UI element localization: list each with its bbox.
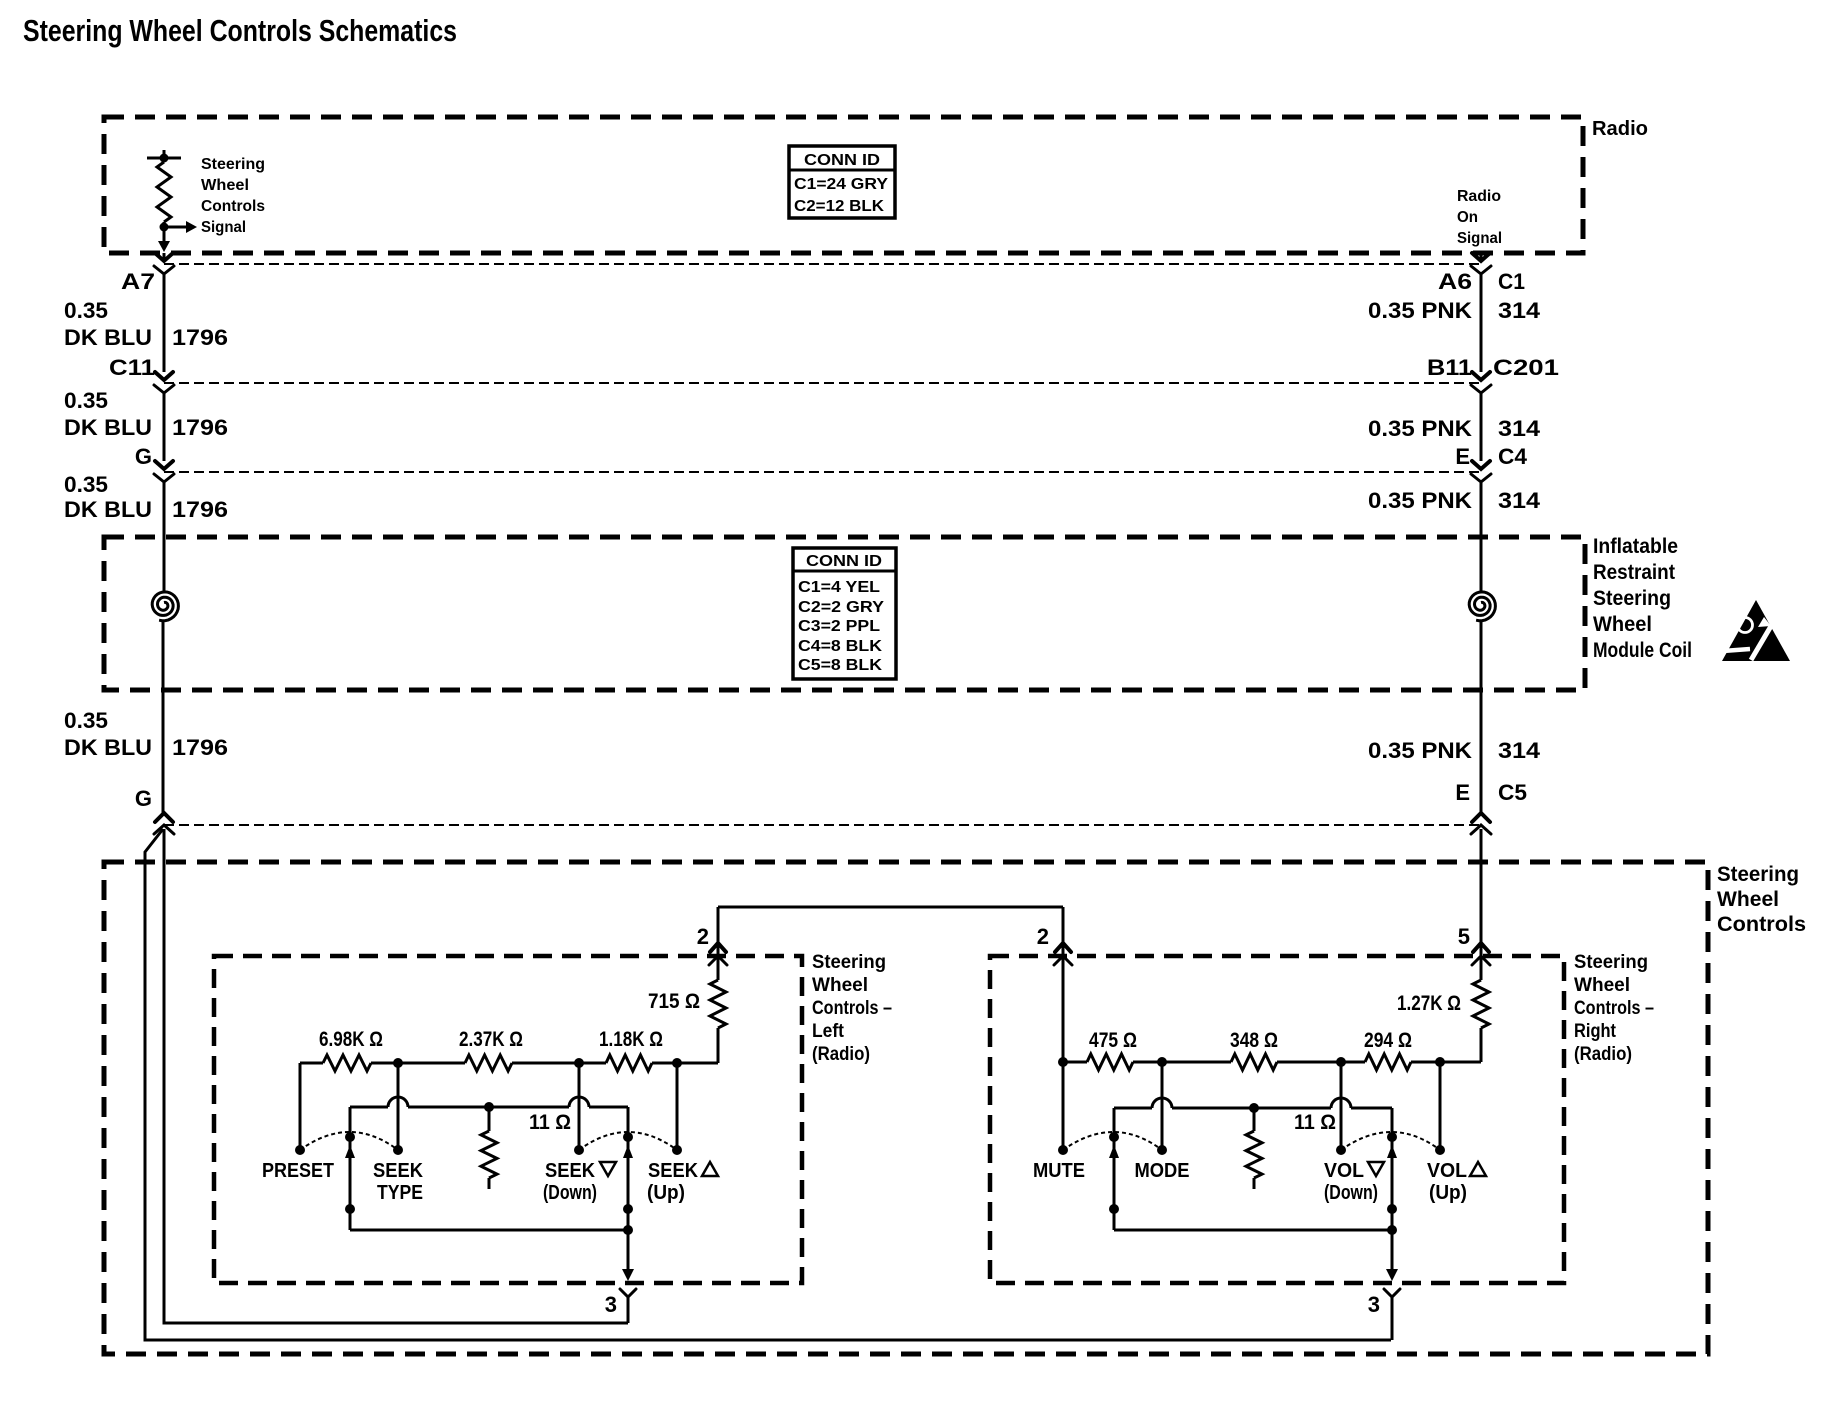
svg-text:SEEK: SEEK: [373, 1160, 424, 1182]
svg-text:C2=12 BLK: C2=12 BLK: [794, 198, 884, 215]
svg-text:314: 314: [1498, 298, 1541, 323]
svg-text:0.35 PNK: 0.35 PNK: [1368, 738, 1472, 763]
svg-text:1.27K Ω: 1.27K Ω: [1397, 992, 1461, 1015]
svg-text:C1=4 YEL: C1=4 YEL: [798, 579, 880, 596]
svg-text:Signal: Signal: [201, 219, 246, 236]
svg-text:0.35 PNK: 0.35 PNK: [1368, 298, 1472, 323]
svg-text:2: 2: [1037, 924, 1049, 949]
svg-text:0.35: 0.35: [64, 298, 108, 323]
svg-text:C4=8 BLK: C4=8 BLK: [798, 638, 882, 655]
svg-text:Steering: Steering: [812, 952, 886, 973]
svg-text:G: G: [135, 786, 152, 811]
svg-text:0.35: 0.35: [64, 388, 108, 413]
svg-text:Steering: Steering: [1574, 952, 1648, 973]
svg-text:Radio: Radio: [1592, 118, 1648, 140]
svg-text:Wheel: Wheel: [1593, 613, 1652, 636]
svg-text:C5: C5: [1498, 780, 1527, 805]
svg-text:DK BLU: DK BLU: [64, 735, 152, 760]
svg-text:C2=2 GRY: C2=2 GRY: [798, 599, 884, 616]
svg-text:6.98K Ω: 6.98K Ω: [319, 1028, 383, 1051]
svg-text:(Radio): (Radio): [1574, 1044, 1632, 1065]
svg-text:B11: B11: [1427, 355, 1472, 380]
svg-text:(Up): (Up): [1429, 1182, 1467, 1204]
svg-text:C201: C201: [1493, 355, 1559, 380]
svg-text:314: 314: [1498, 488, 1541, 513]
svg-text:On: On: [1457, 209, 1478, 226]
svg-text:CONN ID: CONN ID: [806, 553, 882, 570]
svg-text:Controls –: Controls –: [1574, 998, 1654, 1019]
svg-text:(Radio): (Radio): [812, 1044, 870, 1065]
svg-text:Controls: Controls: [1717, 913, 1806, 936]
svg-text:294 Ω: 294 Ω: [1364, 1029, 1412, 1052]
svg-text:Radio: Radio: [1457, 188, 1501, 205]
svg-text:(Down): (Down): [543, 1182, 597, 1204]
svg-text:Signal: Signal: [1457, 230, 1502, 247]
svg-text:348 Ω: 348 Ω: [1230, 1029, 1278, 1052]
svg-text:5: 5: [1458, 924, 1470, 949]
svg-text:(Down): (Down): [1324, 1182, 1378, 1204]
svg-text:VOL: VOL: [1427, 1160, 1467, 1182]
svg-text:DK BLU: DK BLU: [64, 497, 152, 522]
svg-text:C1: C1: [1498, 269, 1525, 294]
svg-text:314: 314: [1498, 738, 1541, 763]
svg-text:G: G: [135, 444, 152, 469]
svg-text:0.35 PNK: 0.35 PNK: [1368, 416, 1472, 441]
svg-text:E: E: [1455, 444, 1470, 469]
svg-text:314: 314: [1498, 416, 1541, 441]
svg-text:Controls –: Controls –: [812, 998, 892, 1019]
svg-text:Controls: Controls: [201, 198, 265, 215]
svg-text:Right: Right: [1574, 1021, 1617, 1042]
svg-text:2: 2: [697, 924, 709, 949]
svg-text:A6: A6: [1438, 269, 1472, 294]
svg-text:TYPE: TYPE: [377, 1182, 423, 1204]
svg-text:PRESET: PRESET: [262, 1160, 334, 1182]
svg-text:1796: 1796: [172, 415, 228, 440]
svg-text:(Up): (Up): [647, 1182, 685, 1204]
svg-text:3: 3: [605, 1292, 617, 1317]
svg-text:1.18K Ω: 1.18K Ω: [599, 1028, 663, 1051]
svg-text:0.35 PNK: 0.35 PNK: [1368, 488, 1472, 513]
svg-text:Steering: Steering: [1717, 863, 1799, 886]
svg-text:VOL: VOL: [1324, 1160, 1364, 1182]
svg-text:3: 3: [1368, 1292, 1380, 1317]
svg-text:MODE: MODE: [1135, 1160, 1190, 1182]
svg-text:C5=8 BLK: C5=8 BLK: [798, 657, 882, 674]
svg-text:E: E: [1455, 780, 1470, 805]
svg-text:Steering: Steering: [201, 156, 265, 173]
svg-text:1796: 1796: [172, 497, 228, 522]
svg-text:CONN ID: CONN ID: [804, 152, 880, 169]
svg-text:Restraint: Restraint: [1593, 561, 1675, 584]
svg-text:Module Coil: Module Coil: [1593, 639, 1692, 662]
svg-text:Wheel: Wheel: [201, 177, 249, 194]
svg-text:Inflatable: Inflatable: [1593, 535, 1678, 558]
svg-text:11 Ω: 11 Ω: [1294, 1111, 1336, 1134]
svg-text:C1=24 GRY: C1=24 GRY: [794, 176, 888, 193]
svg-text:Wheel: Wheel: [812, 975, 868, 996]
svg-text:DK BLU: DK BLU: [64, 415, 152, 440]
svg-text:1796: 1796: [172, 325, 228, 350]
svg-text:C3=2 PPL: C3=2 PPL: [798, 618, 880, 635]
svg-text:475 Ω: 475 Ω: [1089, 1029, 1137, 1052]
svg-text:1796: 1796: [172, 735, 228, 760]
svg-text:C4: C4: [1498, 444, 1528, 469]
svg-text:Wheel: Wheel: [1717, 888, 1779, 911]
svg-text:0.35: 0.35: [64, 708, 108, 733]
svg-text:0.35: 0.35: [64, 472, 108, 497]
svg-text:DK BLU: DK BLU: [64, 325, 152, 350]
svg-text:2.37K Ω: 2.37K Ω: [459, 1028, 523, 1051]
svg-text:SEEK: SEEK: [648, 1160, 699, 1182]
svg-text:MUTE: MUTE: [1033, 1160, 1085, 1182]
svg-text:715 Ω: 715 Ω: [648, 990, 700, 1013]
svg-text:11 Ω: 11 Ω: [529, 1111, 571, 1134]
svg-text:Steering Wheel Controls Schema: Steering Wheel Controls Schematics: [23, 13, 457, 48]
svg-text:C11: C11: [109, 355, 155, 380]
svg-text:A7: A7: [121, 269, 155, 294]
svg-text:SEEK: SEEK: [545, 1160, 596, 1182]
svg-text:Steering: Steering: [1593, 587, 1671, 610]
svg-text:Wheel: Wheel: [1574, 975, 1630, 996]
svg-text:Left: Left: [812, 1021, 845, 1042]
